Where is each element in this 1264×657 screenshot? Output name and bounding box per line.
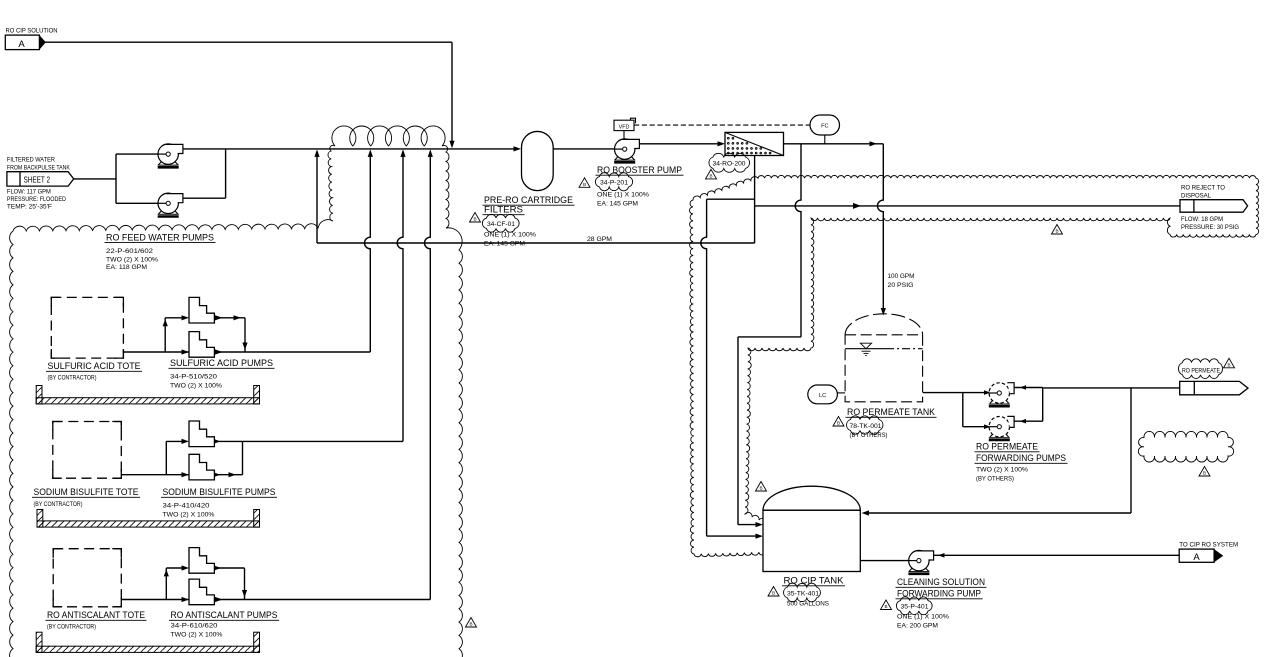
svg-text:22-P-601/602: 22-P-601/602 xyxy=(106,248,153,255)
FC stem to line xyxy=(824,135,826,144)
arrowhead into CIP tank (left) xyxy=(862,510,870,515)
svg-text:34-CF-01: 34-CF-01 xyxy=(487,221,515,228)
wire: filtered water feed from sheet-2 flag xyxy=(74,178,116,180)
svg-text:SULFURIC ACID PUMPS: SULFURIC ACID PUMPS xyxy=(170,358,273,369)
tank dome (dashed) xyxy=(845,314,923,335)
revision triangle B (CIP tank top) xyxy=(756,482,767,492)
revision cloud (left chemical feed area) xyxy=(10,126,463,657)
tag cloud 34-RO-200 xyxy=(709,153,750,172)
wire: bisulfite discharge header xyxy=(215,440,404,442)
wire: riser to antiscalant pump P-610 xyxy=(165,568,167,600)
wire: riser to bisulfite pump P-410 xyxy=(165,441,167,474)
svg-text:SODIUM BISULFITE TOTE: SODIUM BISULFITE TOTE xyxy=(34,487,139,498)
sodium bisulfite tote (dashed) xyxy=(53,422,122,479)
wire: antiscalant discharge header xyxy=(215,599,431,601)
wire: RO CIP solution return header xyxy=(45,41,452,43)
wire: P-420 discharge xyxy=(215,474,243,476)
svg-text:20 PSIG: 20 PSIG xyxy=(888,282,914,289)
wire: CIP supply drop (hop at recycle line) xyxy=(701,199,707,536)
containment basin (antiscalant) xyxy=(36,632,42,652)
off-page connector A (to CIP RO system) xyxy=(1179,549,1214,562)
arrowhead xyxy=(215,349,223,354)
wire: P-602 discharge xyxy=(183,197,225,199)
feed water pump P-601 xyxy=(158,144,183,167)
LC stem to tank xyxy=(837,392,845,394)
wire: riser to sulfuric pump P-510 xyxy=(164,318,166,352)
svg-text:B: B xyxy=(837,421,840,426)
off-page connector (RO reject to disposal) xyxy=(1180,200,1248,213)
arrowhead into P-520 xyxy=(182,349,190,354)
arrowhead xyxy=(229,472,237,477)
svg-text:TEMP: 25'-35'F: TEMP: 25'-35'F xyxy=(7,204,52,211)
RO antiscalant tote (dashed) xyxy=(53,549,121,607)
svg-text:SHEET 2: SHEET 2 xyxy=(24,175,51,184)
svg-text:(BY CONTRACTOR): (BY CONTRACTOR) xyxy=(48,374,97,381)
wire: reject/recycle drop from RO unit xyxy=(754,156,756,244)
arrowhead on permeate line xyxy=(870,141,878,146)
svg-text:SULFURIC ACID TOTE: SULFURIC ACID TOTE xyxy=(48,361,141,372)
arrowhead into P-610 xyxy=(182,565,190,570)
RO membrane unit 34-RO-200 xyxy=(725,132,784,155)
arrowhead xyxy=(215,315,223,320)
wire: sulfuric acid injection riser xyxy=(365,152,371,353)
wire: permeate pump discharges xyxy=(1014,387,1043,389)
tag cloud 35-P-401 xyxy=(896,597,932,615)
wire: feed manifold vertical xyxy=(115,154,117,203)
wire: main feed header to cartridge filter xyxy=(183,148,516,150)
arrowhead bisulfite into header xyxy=(400,149,405,157)
svg-text:B: B xyxy=(772,591,775,596)
wire: sodium bisulfite tote outlet xyxy=(121,474,189,476)
arrowhead antiscalant into header xyxy=(428,149,433,157)
svg-text:RO PERMEATE TANK: RO PERMEATE TANK xyxy=(847,407,936,418)
wire: permeate header to flag xyxy=(1043,387,1180,389)
revision triangle B xyxy=(833,417,844,427)
svg-text:EA: 145 GPM: EA: 145 GPM xyxy=(597,200,638,207)
wire: to CIP tank top inlet xyxy=(865,512,1131,514)
svg-text:EA: 145 GPM: EA: 145 GPM xyxy=(484,240,525,247)
svg-text:FORWARDING PUMP: FORWARDING PUMP xyxy=(897,588,981,599)
metering pump P-520 (sulfuric bottom) xyxy=(189,332,214,358)
CIP tank dome xyxy=(763,486,860,510)
arrowhead sulfuric into header xyxy=(368,149,373,157)
svg-text:ONE (1) X 100%: ONE (1) X 100% xyxy=(597,191,649,198)
tag cloud 34-CF-01 xyxy=(482,214,519,232)
wire: RO unit outlet to permeate drop xyxy=(784,143,884,145)
arrowhead into pump xyxy=(984,390,991,395)
wire: P-610 discharge xyxy=(215,567,245,569)
revision cloud (empty bubble near RO permeate line) xyxy=(1138,431,1233,462)
revision triangle B xyxy=(1224,358,1235,368)
svg-text:EA: 200 GPM: EA: 200 GPM xyxy=(897,622,938,629)
arrowhead up xyxy=(164,569,169,576)
containment basin (bisulfite) xyxy=(37,510,43,528)
svg-text:A: A xyxy=(18,39,25,50)
signal wire VFD to FC (dashed) xyxy=(634,124,810,126)
wire: branch down to CIP tank xyxy=(1130,388,1132,513)
svg-text:RO ANTISCALANT TOTE: RO ANTISCALANT TOTE xyxy=(47,610,145,621)
wire: P-602 discharge riser xyxy=(225,149,227,198)
arrowhead down xyxy=(242,590,247,598)
wire: sulfuric discharge header xyxy=(215,351,371,353)
svg-text:34-P-201: 34-P-201 xyxy=(600,180,628,187)
wire: sodium bisulfite injection riser xyxy=(397,152,403,442)
containment basin (sulfuric) xyxy=(36,386,42,404)
arrowhead into CIP tank xyxy=(756,534,764,539)
wire: P-610 discharge drop xyxy=(244,568,246,600)
svg-text:RO FEED WATER PUMPS: RO FEED WATER PUMPS xyxy=(106,232,214,243)
wire: P-510 discharge xyxy=(215,317,246,319)
svg-text:CLEANING SOLUTION: CLEANING SOLUTION xyxy=(897,577,985,588)
svg-text:500 GALLONS: 500 GALLONS xyxy=(787,600,830,607)
arrowhead xyxy=(213,472,221,477)
svg-text:RO CIP TANK: RO CIP TANK xyxy=(784,575,845,586)
svg-text:B: B xyxy=(583,182,586,187)
wire: recycle riser xyxy=(316,152,318,244)
svg-text:LC: LC xyxy=(819,393,826,399)
arrowhead into P-410 xyxy=(182,439,190,444)
arrowhead into pump xyxy=(984,424,991,429)
wire: branch to CIP supply xyxy=(707,198,755,200)
svg-text:FLOW: 18 GPM: FLOW: 18 GPM xyxy=(1181,216,1223,223)
svg-text:(BY CONTRACTOR): (BY CONTRACTOR) xyxy=(47,623,96,630)
arrowhead down xyxy=(242,343,247,351)
wire: sulfuric acid tote outlet xyxy=(123,351,189,353)
arrowhead on reject line xyxy=(853,203,861,209)
off-page connector (RO permeate) xyxy=(1180,381,1248,394)
metering pump P-620 (antiscalant bottom) xyxy=(189,579,214,605)
svg-text:DISPOSAL: DISPOSAL xyxy=(1181,193,1211,200)
off-page connector A (RO CIP solution, top left) xyxy=(5,35,39,50)
arrowhead recycle into feed header xyxy=(314,149,319,157)
svg-text:RO ANTISCALANT PUMPS: RO ANTISCALANT PUMPS xyxy=(171,610,278,621)
svg-text:TWO (2) X 100%: TWO (2) X 100% xyxy=(976,466,1028,473)
svg-text:RO CIP SOLUTION: RO CIP SOLUTION xyxy=(6,27,58,34)
tag cloud 78-TK-001 xyxy=(847,416,883,434)
wire: cleaning pump discharge to flag xyxy=(934,554,1180,556)
instrument FC (flow controller) xyxy=(810,115,840,135)
pre-RO cartridge filter vessel xyxy=(522,131,554,190)
arrowhead into RO unit xyxy=(718,141,726,146)
VFD box xyxy=(614,120,634,130)
revision triangle B (reject line) xyxy=(1052,225,1063,235)
tag cloud 35-TK-401 xyxy=(784,583,821,602)
wire: permeate tank outlet to forwarding pumps xyxy=(923,392,990,394)
off-page connector SHEET 2 (filtered water) xyxy=(7,172,74,186)
svg-text:PRESSURE: 30 PSIG: PRESSURE: 30 PSIG xyxy=(1181,224,1239,231)
feed water pump P-602 xyxy=(158,193,183,216)
svg-text:35-P-401: 35-P-401 xyxy=(901,604,929,611)
svg-text:B: B xyxy=(759,486,762,491)
wire: discharge header riser xyxy=(1042,388,1044,422)
svg-text:PRESSURE: FLOODED: PRESSURE: FLOODED xyxy=(7,196,66,203)
svg-text:34-P-610/620: 34-P-610/620 xyxy=(171,622,218,629)
svg-text:RO PERMEATE: RO PERMEATE xyxy=(976,441,1038,452)
arrowhead into P-620 xyxy=(182,597,190,602)
arrowhead xyxy=(234,315,242,320)
wire: P-510 discharge drop xyxy=(244,318,246,352)
svg-text:FORWARDING PUMPS: FORWARDING PUMPS xyxy=(976,453,1066,464)
arrowhead xyxy=(215,597,223,602)
svg-text:B: B xyxy=(1227,363,1230,368)
wire: suction to feed pump P-601 xyxy=(116,153,160,155)
svg-text:FILTERS: FILTERS xyxy=(484,204,523,215)
svg-text:FLOW: 117 GPM: FLOW: 117 GPM xyxy=(7,189,51,196)
wire: booster discharge to RO unit xyxy=(640,143,721,145)
arrowhead (left) xyxy=(938,553,945,558)
RO permeate forwarding pump (bottom, by others) xyxy=(989,416,1014,440)
wire: post-filter branch drop (hop at reject line) xyxy=(795,144,801,337)
svg-text:RO BOOSTER PUMP: RO BOOSTER PUMP xyxy=(597,165,682,176)
svg-text:35-TK-401: 35-TK-401 xyxy=(787,591,819,598)
arrowhead xyxy=(214,565,222,570)
arrowhead into feed line xyxy=(449,141,454,149)
svg-text:VFD: VFD xyxy=(619,124,630,130)
revision triangle B xyxy=(470,213,481,223)
svg-text:FILTERED WATER: FILTERED WATER xyxy=(7,157,55,164)
revision triangle B (bottom left area) xyxy=(466,618,477,628)
arrowhead (left) xyxy=(1020,419,1027,424)
arrowhead into filter xyxy=(514,146,522,151)
tag cloud 34-P-201 xyxy=(595,173,632,191)
svg-text:34-P-510/520: 34-P-510/520 xyxy=(170,373,217,380)
RO permeate tank 78-TK-001 (dashed, by others) xyxy=(845,335,923,402)
arrowhead into P-510 xyxy=(182,315,190,320)
svg-text:EA: 118 GPM: EA: 118 GPM xyxy=(106,264,147,271)
svg-text:78-TK-001: 78-TK-001 xyxy=(850,423,882,430)
svg-text:B: B xyxy=(469,622,472,627)
signal stem VFD to pump xyxy=(623,131,625,140)
revision triangle B xyxy=(706,169,717,179)
wire: drop to CIP tank upper inlet xyxy=(737,337,739,525)
svg-text:RO REJECT TO: RO REJECT TO xyxy=(1181,185,1225,192)
svg-text:B: B xyxy=(1055,229,1058,234)
metering pump P-510 (sulfuric top) xyxy=(189,297,214,323)
svg-text:FROM BACKPULSE TANK: FROM BACKPULSE TANK xyxy=(7,164,71,171)
arrowhead (left) xyxy=(1020,385,1027,390)
svg-text:SODIUM BISULFITE PUMPS: SODIUM BISULFITE PUMPS xyxy=(163,487,276,498)
wire: P-420 discharge riser xyxy=(242,441,244,474)
svg-text:100 GPM: 100 GPM xyxy=(888,273,915,280)
cleaning solution forwarding pump 35-P-401 xyxy=(908,550,933,573)
svg-text:34-P-410/420: 34-P-410/420 xyxy=(163,502,210,509)
revision triangle B xyxy=(881,600,892,610)
instrument LC (level controller) xyxy=(808,385,838,404)
svg-text:(BY OTHERS): (BY OTHERS) xyxy=(850,432,888,439)
revision triangle B xyxy=(579,178,590,188)
RO permeate forwarding pump (top, by others) xyxy=(989,383,1014,407)
wire: filter outlet to booster pump xyxy=(553,148,617,150)
revision triangle B (below empty cloud) xyxy=(1199,467,1210,477)
wire: suction split xyxy=(962,393,964,427)
tank level line xyxy=(845,348,886,350)
metering pump P-410 (bisulfite top) xyxy=(189,421,214,447)
RO booster pump P-201 xyxy=(614,139,639,162)
svg-text:TWO (2) X 100%: TWO (2) X 100% xyxy=(170,382,222,389)
svg-text:34-RO-200: 34-RO-200 xyxy=(713,161,746,168)
arrowhead into P-420 xyxy=(182,472,190,477)
svg-text:ONE (1) X 100%: ONE (1) X 100% xyxy=(484,231,536,238)
svg-text:RO PERMEATE: RO PERMEATE xyxy=(1182,368,1220,375)
svg-text:TWO (2) X 100%: TWO (2) X 100% xyxy=(163,511,215,518)
svg-text:(BY OTHERS): (BY OTHERS) xyxy=(976,475,1014,482)
svg-text:FC: FC xyxy=(821,124,828,130)
revision triangle B xyxy=(768,587,779,597)
wire: antiscalant tote outlet xyxy=(121,599,189,601)
svg-text:TWO (2) X 100%: TWO (2) X 100% xyxy=(106,257,158,264)
wire: permeate drop to tank (hop at reject line) xyxy=(877,144,883,308)
svg-text:B: B xyxy=(473,217,476,222)
wire: jog left xyxy=(738,336,801,338)
wire: antiscalant injection riser xyxy=(424,152,430,600)
svg-text:TO CIP RO SYSTEM: TO CIP RO SYSTEM xyxy=(1179,541,1238,548)
metering pump P-420 (bisulfite bottom) xyxy=(189,454,214,480)
arrowhead into permeate tank xyxy=(881,308,886,316)
svg-text:B: B xyxy=(709,174,712,179)
level symbol xyxy=(860,343,871,349)
svg-text:A: A xyxy=(1193,552,1200,563)
wire: RO reject line to disposal xyxy=(755,205,1180,207)
arrowhead into CIP tank upper inlet xyxy=(756,522,764,527)
svg-text:28 GPM: 28 GPM xyxy=(587,236,612,243)
revision cloud (RO reject line and CIP tank feed) xyxy=(690,175,1259,556)
RO CIP tank 35-TK-401 xyxy=(763,510,860,571)
arrowhead xyxy=(213,439,221,444)
wire: suction to feed pump P-602 xyxy=(116,202,160,204)
sulfuric acid tote (dashed) xyxy=(51,297,123,358)
metering pump P-610 (antiscalant top) xyxy=(189,548,214,574)
svg-text:(BY CONTRACTOR): (BY CONTRACTOR) xyxy=(34,501,83,508)
svg-text:TWO (2) X 100%: TWO (2) X 100% xyxy=(171,631,223,638)
wire: 28 GPM recycle line xyxy=(317,242,755,244)
svg-text:B: B xyxy=(1203,471,1206,476)
wire: CIP tank outlet to cleaning pump xyxy=(860,560,911,562)
arrowhead up xyxy=(163,319,168,326)
svg-text:B: B xyxy=(884,604,887,609)
tag cloud RO PERMEATE xyxy=(1178,359,1222,379)
svg-text:ONE (1) X 100%: ONE (1) X 100% xyxy=(897,613,949,620)
wire: CIP tank lower inlet xyxy=(707,535,759,537)
